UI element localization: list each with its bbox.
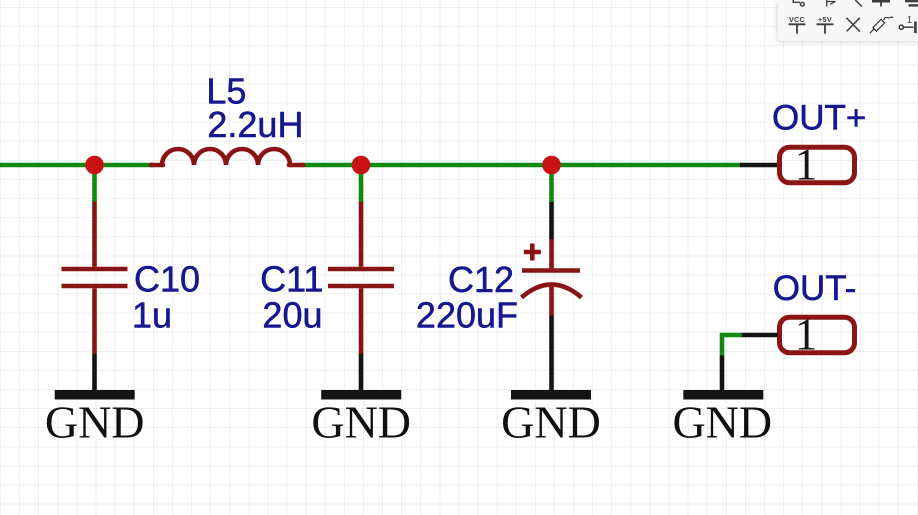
wire C12 stub black (549, 202, 554, 240)
ground GND under C12 (511, 390, 591, 400)
svg-text:OUT-: OUT- (773, 269, 857, 308)
port OUT+ pin 1 box (780, 147, 855, 183)
wire main net left segment (0, 163, 153, 168)
wire OUT- port lead black (741, 333, 778, 338)
toolbar icon net flag (clipped) (793, 0, 804, 6)
svg-text:GND: GND (45, 397, 145, 448)
svg-text:GND: GND (311, 397, 411, 448)
svg-text:1u: 1u (132, 294, 172, 335)
ground GND under C10 (55, 390, 135, 400)
svg-text:1: 1 (795, 310, 818, 360)
toolbar icon equal bars (clipped) (905, 0, 918, 2)
toolbar icon ground (clipped) (872, 0, 890, 3)
svg-text:GND: GND (501, 397, 601, 448)
port OUT- pin 1 box (780, 317, 855, 353)
toolbar icon wire (clipped) (855, 0, 862, 7)
svg-text:2.2uH: 2.2uH (207, 104, 303, 145)
ground GND under OUT- (683, 390, 763, 400)
inductor L5 (151, 149, 303, 165)
svg-text:GND: GND (672, 397, 772, 448)
toolbar panel top right (778, 0, 918, 41)
svg-text:1: 1 (795, 140, 818, 190)
toolbar icon +5V (817, 24, 834, 33)
svg-text:220uF: 220uF (416, 294, 518, 335)
toolbar icon no-connect X (846, 18, 860, 32)
wire C11 stub green (359, 165, 364, 203)
capacitor C11 (328, 202, 394, 355)
toolbar icon probe pen (870, 17, 894, 33)
node junction 1 (85, 156, 104, 175)
node junction 2 (352, 156, 371, 175)
wire OUT- green corner (722, 335, 742, 356)
wire C10 stub green (92, 165, 97, 203)
wire C10 to ground (92, 354, 97, 391)
capacitor C10 (62, 202, 128, 355)
svg-text:20u: 20u (262, 294, 322, 335)
wire OUT- to ground black (720, 356, 725, 392)
wire main net middle segment (302, 163, 741, 168)
wire OUT+ port lead black (740, 163, 778, 168)
wire C11 to ground (359, 354, 364, 391)
svg-text:OUT+: OUT+ (772, 99, 866, 138)
toolbar icon flag (clipped) (827, 0, 836, 7)
ground GND under C11 (321, 390, 401, 400)
toolbar icon VCC (789, 24, 806, 33)
wire C12 stub green (549, 165, 554, 203)
capacitor C12 polarized (522, 239, 582, 316)
wire C12 to ground (549, 316, 554, 392)
toolbar icon pin (899, 22, 915, 34)
node junction 3 (542, 156, 561, 175)
